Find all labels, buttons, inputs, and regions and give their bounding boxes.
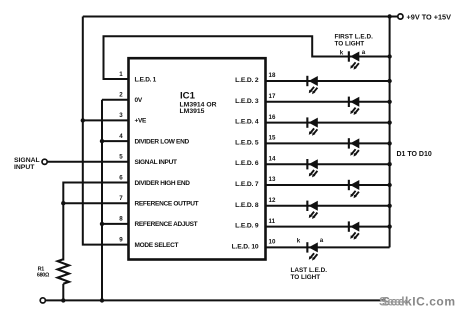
svg-text:6: 6 xyxy=(119,174,123,181)
node pin 8 junction xyxy=(100,222,104,226)
LED D6 xyxy=(306,159,318,177)
pin number 12 xyxy=(269,197,276,204)
LED D4 xyxy=(306,117,318,135)
node D5/bus junction xyxy=(387,141,391,145)
svg-text:L.E.D. 6: L.E.D. 6 xyxy=(235,160,259,167)
svg-text:7: 7 xyxy=(119,195,123,202)
svg-text:4: 4 xyxy=(119,133,123,140)
wire ground rail 0V xyxy=(45,299,385,301)
IC pin 15 label "L.E.D. 5" xyxy=(235,139,259,146)
svg-text:k: k xyxy=(340,49,344,56)
pin number 17 xyxy=(269,93,276,100)
svg-text:L.E.D. 5: L.E.D. 5 xyxy=(235,139,259,146)
svg-text:REFERENCE ADJUST: REFERENCE ADJUST xyxy=(135,221,198,228)
wire LED anode bus (vertical) xyxy=(389,17,391,248)
wire pin 6 stub to R1 xyxy=(63,183,128,261)
node pin 3 junction xyxy=(81,118,85,122)
wire pin 8 stub xyxy=(102,223,129,225)
svg-text:15: 15 xyxy=(269,135,276,142)
svg-text:3: 3 xyxy=(119,112,123,119)
wire pin 12 row to bus xyxy=(266,205,390,207)
node bus/top-rail junction xyxy=(387,14,391,18)
svg-text:L.E.D. 10: L.E.D. 10 xyxy=(232,243,259,250)
node D8/bus junction xyxy=(387,204,391,208)
IC pin 3 label "+VE" xyxy=(135,118,148,125)
label a (D1 anode) xyxy=(362,49,366,56)
svg-text:k: k xyxy=(297,237,301,244)
svg-text:a: a xyxy=(362,49,366,56)
svg-text:INPUT: INPUT xyxy=(14,164,35,171)
svg-text:8: 8 xyxy=(119,216,123,223)
op-amp/driver IC1 box (LM3914 OR LM3915) xyxy=(129,58,266,259)
IC pin 6 label "DIVIDER HIGH END" xyxy=(135,180,191,187)
svg-text:14: 14 xyxy=(269,155,276,162)
svg-text:a: a xyxy=(320,237,324,244)
svg-text:REFERENCE OUTPUT: REFERENCE OUTPUT xyxy=(135,201,199,208)
IC pin 18 label "L.E.D. 2" xyxy=(235,77,259,84)
svg-text:FIRST L.E.D.: FIRST L.E.D. xyxy=(335,33,374,40)
svg-text:L.E.D. 9: L.E.D. 9 xyxy=(235,223,259,230)
IC pin 4 label "DIVIDER LOW END" xyxy=(135,138,190,145)
pin number 6 xyxy=(119,174,123,181)
pin number 11 xyxy=(269,218,276,225)
svg-text:SIGNAL INPUT: SIGNAL INPUT xyxy=(135,159,177,166)
LED D1 (first LED to light) xyxy=(348,51,360,69)
pin number 15 xyxy=(269,135,276,142)
wire pin 18 row to bus xyxy=(266,80,390,82)
node D3/bus junction xyxy=(387,100,391,104)
svg-text:1: 1 xyxy=(119,71,123,78)
wire pin 4 stub xyxy=(102,140,129,142)
wire pin 17 row to bus xyxy=(266,101,390,103)
label k (D1 cathode) xyxy=(340,49,344,56)
svg-text:L.E.D. 1: L.E.D. 1 xyxy=(135,76,157,83)
IC pin 10 label "L.E.D. 10" xyxy=(232,243,259,250)
svg-text:17: 17 xyxy=(269,93,276,100)
svg-text:+VE: +VE xyxy=(135,118,148,125)
IC pin 5 label "SIGNAL INPUT" xyxy=(135,159,177,166)
svg-text:Seek: Seek xyxy=(379,295,408,309)
svg-text:13: 13 xyxy=(269,176,276,183)
svg-text:2: 2 xyxy=(119,92,123,99)
pin number 16 xyxy=(269,114,276,121)
label LAST L.E.D. TO LIGHT xyxy=(291,267,328,281)
node D4/bus junction xyxy=(387,120,391,124)
svg-text:TO LIGHT: TO LIGHT xyxy=(335,40,365,47)
pin number 3 xyxy=(119,112,123,119)
svg-text:+9V TO +15V: +9V TO +15V xyxy=(407,13,452,22)
node pin 7 junction xyxy=(61,201,65,205)
LED D10 xyxy=(306,242,318,260)
wire pin 2 stub (0V) xyxy=(102,99,129,101)
svg-text:9: 9 xyxy=(119,236,123,243)
wire pin 15 row to bus xyxy=(266,142,390,144)
svg-text:18: 18 xyxy=(269,72,276,79)
wire pin 11 row to bus xyxy=(266,226,390,228)
terminal SIGNAL INPUT xyxy=(14,157,47,171)
node D1/bus junction xyxy=(387,54,391,58)
node pin 4 junction xyxy=(100,139,104,143)
svg-text:680Ω: 680Ω xyxy=(37,273,50,279)
IC pin 11 label "L.E.D. 9" xyxy=(235,223,259,230)
svg-text:R1: R1 xyxy=(38,266,45,272)
terminal 0V (bottom left) xyxy=(40,298,45,303)
svg-text:11: 11 xyxy=(269,218,276,225)
pin number 18 xyxy=(269,72,276,79)
svg-text:L.E.D. 7: L.E.D. 7 xyxy=(235,181,259,188)
node R1/rail junction xyxy=(61,298,65,302)
pin number 10 xyxy=(269,239,276,246)
svg-text:DIVIDER LOW END: DIVIDER LOW END xyxy=(135,138,190,145)
svg-text:LM3915: LM3915 xyxy=(180,108,205,115)
pin number 2 xyxy=(119,92,123,99)
wire pin 10 row to bus xyxy=(266,246,390,248)
IC pin 14 label "L.E.D. 6" xyxy=(235,160,259,167)
svg-text:MODE SELECT: MODE SELECT xyxy=(135,242,179,249)
svg-text:5: 5 xyxy=(119,154,123,161)
IC pin 1 label "L.E.D. 1" xyxy=(135,76,157,83)
wire pin 7 stub xyxy=(63,202,128,204)
terminal +9V TO +15V xyxy=(398,13,451,22)
wire pin 13 row to bus xyxy=(266,184,390,186)
svg-text:L.E.D. 2: L.E.D. 2 xyxy=(235,77,259,84)
resistor R1 680 ohm xyxy=(37,259,69,300)
pin number 1 xyxy=(119,71,123,78)
wire pin 1 stub to LED D1 (up and over) xyxy=(104,36,390,79)
LED D2 xyxy=(306,76,318,94)
svg-text:0V: 0V xyxy=(135,97,143,104)
svg-text:16: 16 xyxy=(269,114,276,121)
pin number 9 xyxy=(119,236,123,243)
node D9/bus junction xyxy=(387,224,391,228)
IC pin 17 label "L.E.D. 3" xyxy=(235,98,259,105)
svg-text:DIVIDER HIGH END: DIVIDER HIGH END xyxy=(135,180,191,187)
IC pin 2 label "0V" xyxy=(135,97,143,104)
svg-text:L.E.D. 3: L.E.D. 3 xyxy=(235,98,259,105)
LED D3 xyxy=(348,97,360,115)
wire 0V vertical (pins 2,4,8 to ground rail) xyxy=(101,100,103,301)
svg-text:L.E.D. 8: L.E.D. 8 xyxy=(235,202,259,209)
IC pin 16 label "L.E.D. 4" xyxy=(235,119,259,126)
IC pin 13 label "L.E.D. 7" xyxy=(235,181,259,188)
LED D7 xyxy=(348,180,360,198)
LED D9 xyxy=(348,221,360,239)
wire pin 14 row to bus xyxy=(266,163,390,165)
watermark SeekIC.com xyxy=(379,295,456,309)
node 0V-line/rail junction xyxy=(100,298,104,302)
wire pin 16 row to bus xyxy=(266,122,390,124)
pin number 14 xyxy=(269,155,276,162)
svg-text:TO LIGHT: TO LIGHT xyxy=(291,274,321,281)
svg-text:IC1: IC1 xyxy=(180,91,196,102)
node D7/bus junction xyxy=(387,183,391,187)
pin number 8 xyxy=(119,216,123,223)
IC pin 9 label "MODE SELECT" xyxy=(135,242,179,249)
LED D5 xyxy=(348,138,360,156)
svg-text:10: 10 xyxy=(269,239,276,246)
wire +9V top rail xyxy=(83,16,398,18)
node D2/bus junction xyxy=(387,79,391,83)
pin number 13 xyxy=(269,176,276,183)
LED D8 xyxy=(306,201,318,219)
label a (D10 anode) xyxy=(320,237,324,244)
wire +V vertical (top rail to pin 3 and pin 9) xyxy=(83,17,129,245)
pin number 7 xyxy=(119,195,123,202)
svg-text:L.E.D. 4: L.E.D. 4 xyxy=(235,119,259,126)
IC pin 8 label "REFERENCE ADJUST" xyxy=(135,221,198,228)
pin number 5 xyxy=(119,154,123,161)
label k (D10 cathode) xyxy=(297,237,301,244)
wire signal input to pin 5 xyxy=(47,161,128,163)
wire pin 3 stub (+VE) xyxy=(83,119,129,121)
IC pin 7 label "REFERENCE OUTPUT" xyxy=(135,201,199,208)
node D6/bus junction xyxy=(387,162,391,166)
pin number 4 xyxy=(119,133,123,140)
label D1 TO D10 xyxy=(397,151,432,158)
svg-text:D1 TO D10: D1 TO D10 xyxy=(397,151,432,158)
svg-text:12: 12 xyxy=(269,197,276,204)
IC pin 12 label "L.E.D. 8" xyxy=(235,202,259,209)
label FIRST L.E.D. TO LIGHT xyxy=(335,33,374,47)
